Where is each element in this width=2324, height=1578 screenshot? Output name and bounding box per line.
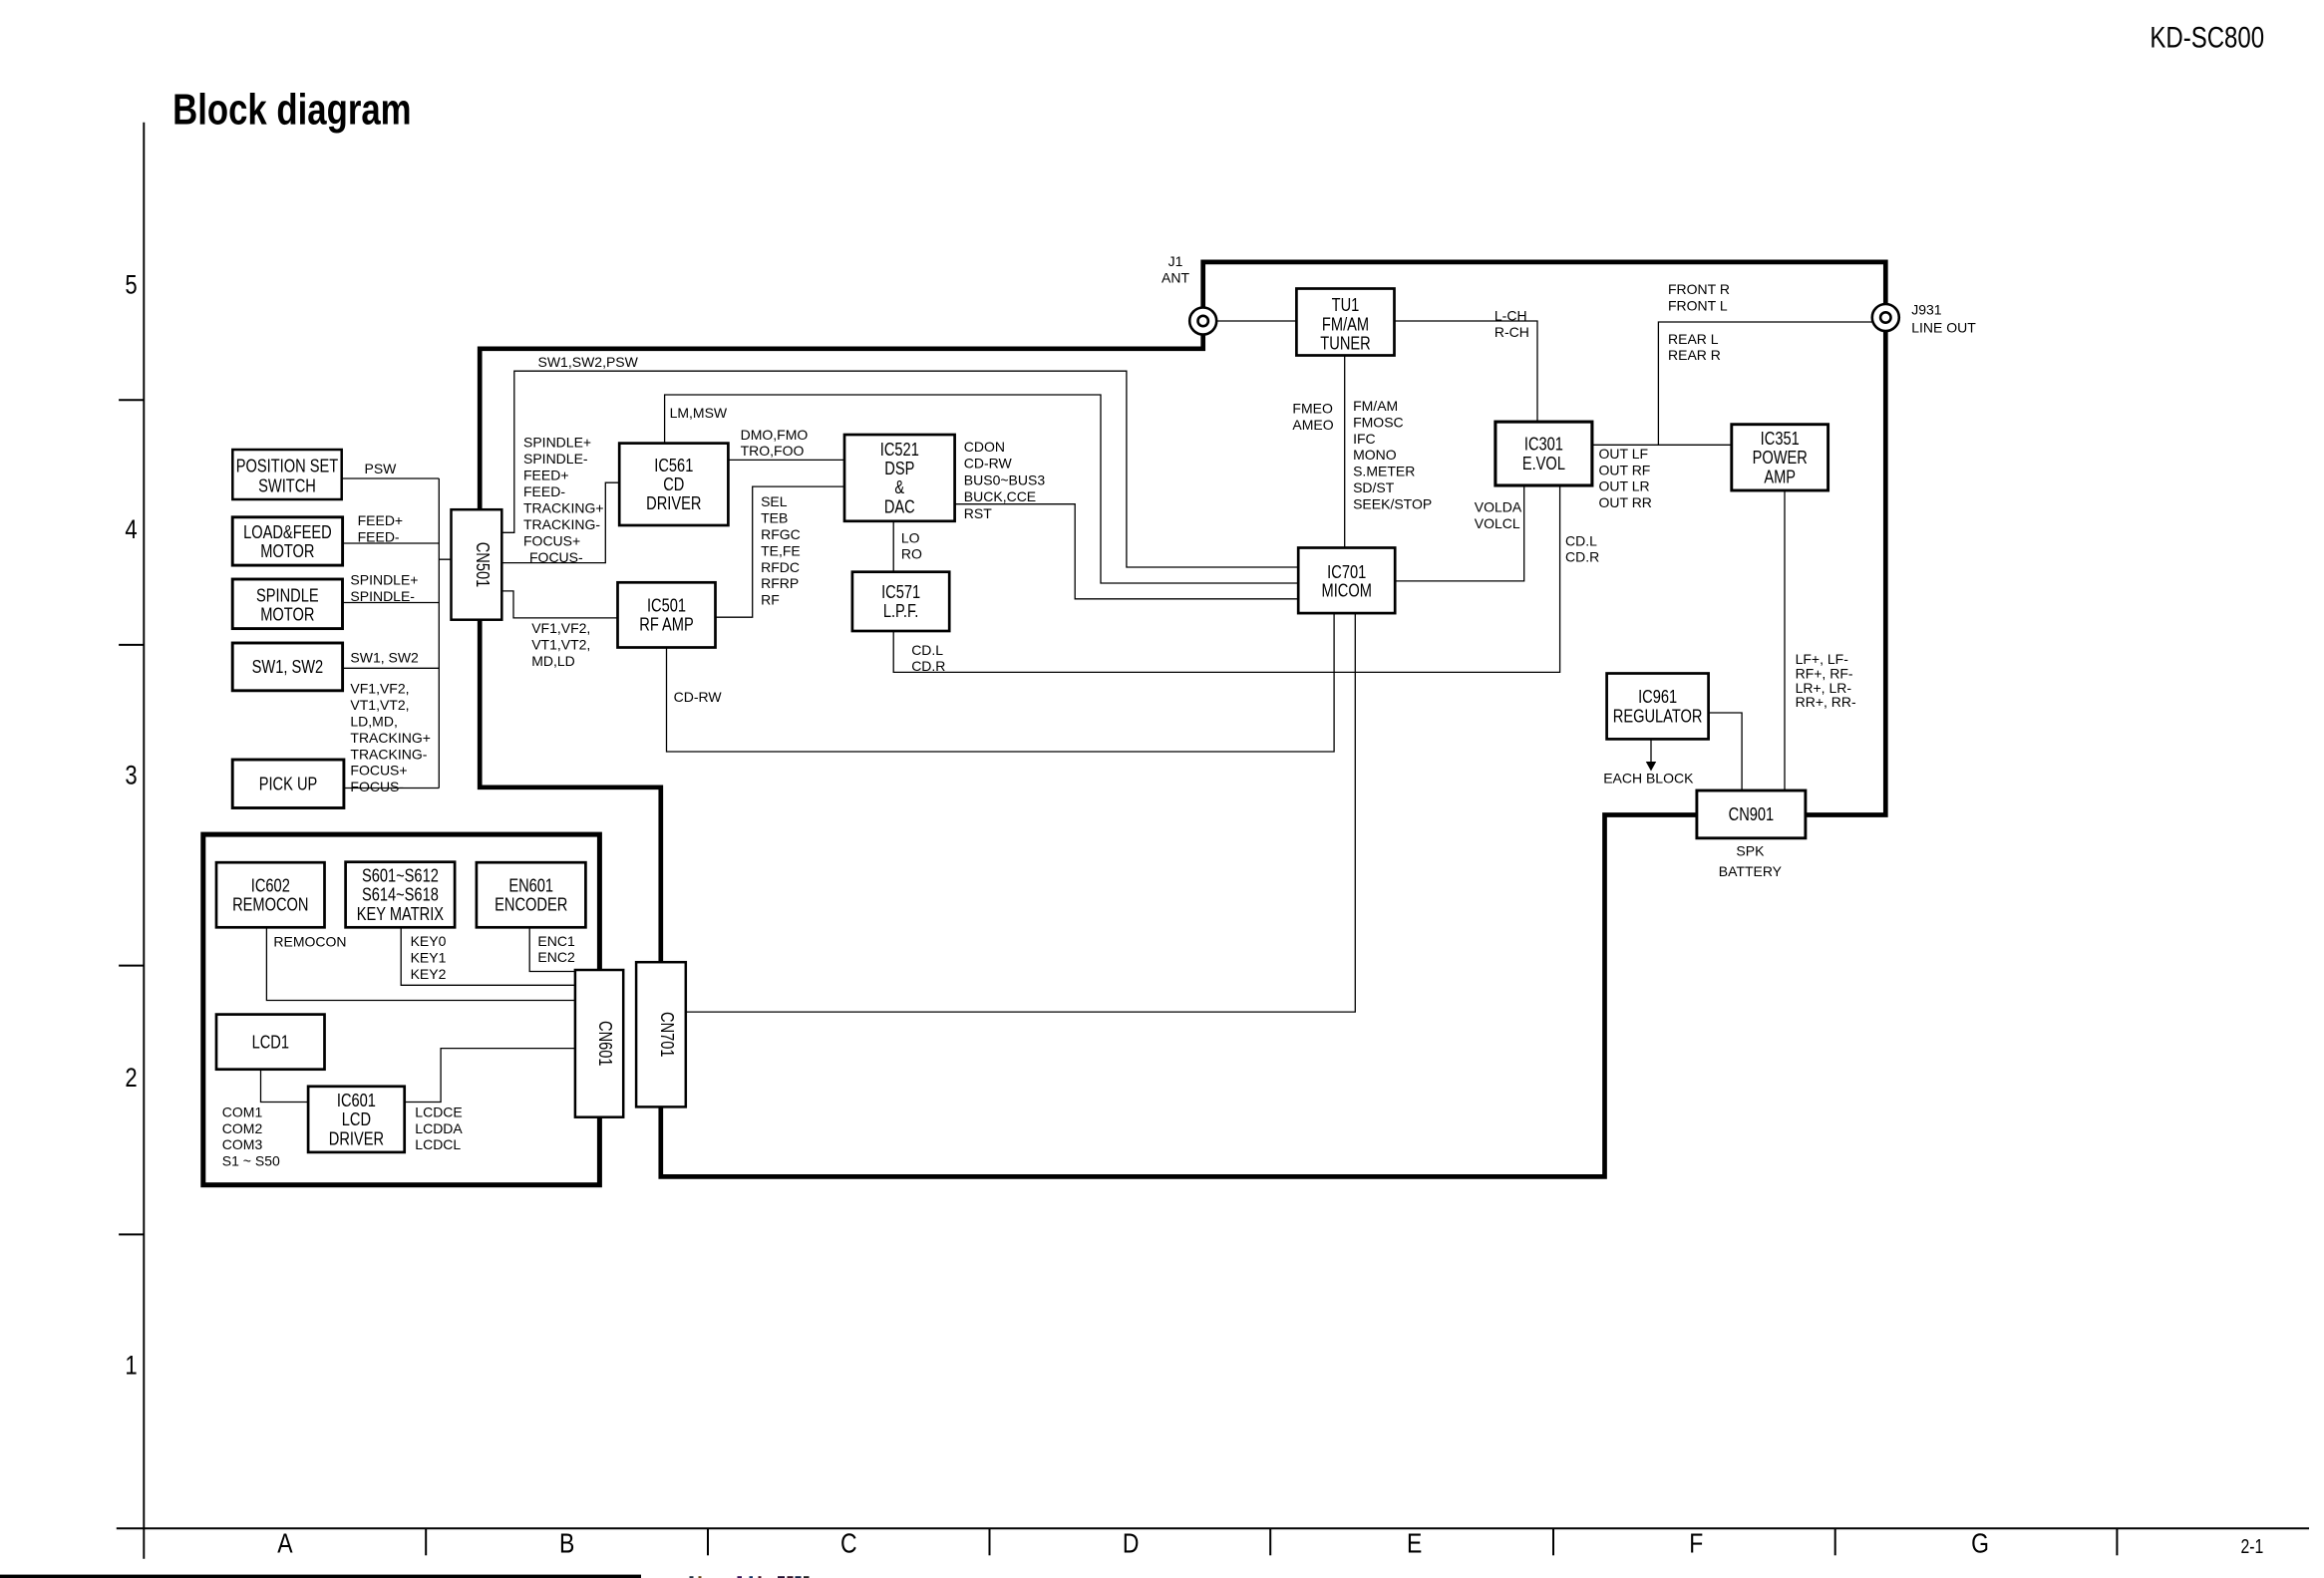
svg-text:RF AMP: RF AMP — [639, 614, 693, 635]
wire LM,MSW: IC561 to IC701 MICOM — [665, 395, 1299, 583]
ruler bottom tick 7 — [2116, 1528, 2118, 1555]
svg-text:FRONT R: FRONT R — [1668, 281, 1730, 297]
svg-text:&: & — [894, 477, 904, 498]
svg-text:LCDDA: LCDDA — [415, 1120, 463, 1136]
svg-text:Block diagram: Block diagram — [172, 86, 411, 135]
block IC961 REGULATOR — [1607, 674, 1709, 740]
svg-text:FMOSC: FMOSC — [1353, 414, 1404, 430]
wire KEY0-2: KEY MATRIX to CN601 — [401, 927, 575, 985]
svg-text:SW1, SW2: SW1, SW2 — [350, 650, 419, 666]
svg-text:MOTOR: MOTOR — [260, 540, 314, 561]
svg-text:FMEO: FMEO — [1292, 401, 1333, 417]
wire keyboard-board enclosure outline (thick) — [203, 834, 600, 1185]
svg-text:FM/AM: FM/AM — [1353, 398, 1398, 414]
svg-text:LM,MSW: LM,MSW — [670, 405, 728, 421]
page bottom edge bar — [0, 1575, 641, 1578]
svg-text:AMEO: AMEO — [1292, 417, 1333, 433]
svg-text:CN601: CN601 — [595, 1021, 616, 1067]
wire IC961 arrow to EACH BLOCK — [1650, 739, 1652, 763]
svg-text:REMOCON: REMOCON — [273, 933, 346, 949]
wire main-unit enclosure outline (thick) — [480, 262, 1885, 1177]
svg-text:REGULATOR: REGULATOR — [1613, 706, 1703, 727]
wire CDON..RST: IC521 to IC701 MICOM — [955, 504, 1299, 599]
block S601-S618 KEY MATRIX — [346, 862, 456, 928]
svg-text:REMOCON: REMOCON — [232, 894, 308, 915]
svg-text:ENCODER: ENCODER — [495, 894, 567, 915]
svg-text:L.P.F.: L.P.F. — [883, 601, 919, 622]
svg-text:FM/AM: FM/AM — [1322, 314, 1369, 335]
connector CN501 — [452, 509, 502, 620]
svg-text:TEB: TEB — [761, 510, 788, 526]
svg-text:TRO,FOO: TRO,FOO — [741, 443, 805, 459]
svg-text:S601~S612: S601~S612 — [362, 865, 439, 886]
wire OUT LF..RR: IC301 to IC351 POWER AMP — [1592, 444, 1732, 446]
block SPINDLE MOTOR — [232, 579, 342, 629]
block IC501 RF AMP — [618, 582, 716, 647]
svg-text:FRONT L: FRONT L — [1668, 297, 1728, 313]
block IC571 L.P.F. — [852, 572, 949, 631]
svg-text:CD-RW: CD-RW — [674, 689, 723, 705]
wire PSW: POSITION SET SWITCH to bus — [342, 477, 440, 479]
svg-text:IC521: IC521 — [880, 439, 919, 460]
svg-text:B: B — [559, 1528, 574, 1559]
svg-text:VOLCL: VOLCL — [1475, 515, 1520, 531]
wire CD-RW: IC501 to IC701 MICOM — [667, 613, 1335, 753]
ruler bottom tick 1 — [425, 1528, 427, 1555]
svg-text:LD,MD,: LD,MD, — [350, 713, 397, 729]
svg-text:BUCK,CCE: BUCK,CCE — [964, 488, 1036, 504]
svg-text:TRACKING-: TRACKING- — [350, 746, 427, 762]
svg-text:CDON: CDON — [964, 439, 1005, 455]
svg-text:SW1,SW2,PSW: SW1,SW2,PSW — [538, 354, 639, 370]
block PICK UP — [232, 760, 344, 808]
wire FRONT/REAR: to J931 LINE OUT — [1658, 322, 1871, 445]
svg-text:OUT RF: OUT RF — [1599, 462, 1651, 477]
svg-text:KEY1: KEY1 — [411, 949, 447, 965]
svg-text:SPINDLE-: SPINDLE- — [523, 451, 588, 467]
svg-text:CN901: CN901 — [1729, 804, 1775, 825]
svg-text:RR+, RR-: RR+, RR- — [1796, 694, 1856, 710]
svg-text:FEED+: FEED+ — [523, 468, 569, 483]
wire ENC1,ENC2: EN601 to CN601 — [529, 927, 575, 971]
svg-text:SPINDLE+: SPINDLE+ — [350, 572, 418, 588]
svg-text:COM2: COM2 — [222, 1120, 263, 1136]
svg-text:EN601: EN601 — [508, 875, 553, 896]
svg-text:PICK UP: PICK UP — [259, 774, 318, 794]
svg-text:RST: RST — [964, 505, 992, 521]
svg-text:KEY2: KEY2 — [411, 966, 447, 982]
svg-text:G: G — [1971, 1528, 1989, 1559]
svg-text:SD/ST: SD/ST — [1353, 479, 1395, 495]
svg-text:DSP: DSP — [884, 458, 914, 478]
wire SW1,SW2: SW1,SW2 to bus — [343, 667, 440, 669]
svg-text:CD.L: CD.L — [911, 642, 943, 658]
svg-text:LCDCE: LCDCE — [415, 1104, 462, 1119]
svg-text:RFRP: RFRP — [761, 575, 799, 591]
svg-text:TRACKING+: TRACKING+ — [523, 500, 604, 516]
svg-text:ENC2: ENC2 — [537, 949, 575, 965]
svg-text:KEY MATRIX: KEY MATRIX — [357, 903, 444, 924]
svg-text:KEY0: KEY0 — [411, 933, 447, 949]
block SW1, SW2 — [232, 643, 342, 691]
svg-text:IC961: IC961 — [1638, 687, 1677, 708]
svg-text:TRACKING+: TRACKING+ — [350, 730, 431, 746]
ruler bottom tick 3 — [989, 1528, 991, 1555]
svg-text:VOLDA: VOLDA — [1475, 499, 1522, 515]
svg-text:2-1: 2-1 — [2240, 1535, 2263, 1557]
svg-text:R-CH: R-CH — [1494, 324, 1529, 340]
svg-text:MICOM: MICOM — [1322, 580, 1372, 601]
svg-text:VF1,VF2,: VF1,VF2, — [350, 681, 409, 697]
wire SW1,SW2,PSW: CN501 to IC701 MICOM — [501, 371, 1298, 567]
block IC301 E.VOL — [1495, 422, 1592, 485]
svg-text:SW1, SW2: SW1, SW2 — [252, 657, 324, 678]
svg-text:DRIVER: DRIVER — [646, 493, 701, 514]
svg-text:SEL: SEL — [761, 493, 788, 509]
ruler bottom tick 6 — [1834, 1528, 1836, 1555]
svg-text:IC571: IC571 — [881, 581, 920, 602]
svg-text:FEED-: FEED- — [523, 483, 565, 499]
svg-text:IC602: IC602 — [251, 875, 290, 896]
svg-text:S1 ~ S50: S1 ~ S50 — [222, 1153, 280, 1169]
svg-text:RF: RF — [761, 592, 780, 608]
svg-text:COM1: COM1 — [222, 1104, 263, 1119]
svg-text:FEED+: FEED+ — [358, 512, 404, 528]
svg-text:RO: RO — [901, 546, 922, 562]
svg-text:C: C — [840, 1528, 857, 1559]
svg-text:F: F — [1689, 1528, 1703, 1559]
connector J1 ANT jack — [1189, 308, 1216, 335]
svg-text:LOAD&FEED: LOAD&FEED — [243, 521, 332, 542]
svg-text:E: E — [1407, 1528, 1422, 1559]
svg-text:ENC1: ENC1 — [537, 933, 575, 949]
ruler left border line — [143, 123, 145, 1559]
block LOAD&FEED MOTOR — [232, 517, 342, 565]
svg-text:PSW: PSW — [365, 461, 398, 476]
wire L-CH,R-CH: TU1 to IC301 E.VOL — [1395, 321, 1538, 422]
svg-text:ANT: ANT — [1162, 269, 1189, 285]
svg-text:CN501: CN501 — [472, 542, 493, 588]
ruler bottom tick 4 — [1269, 1528, 1271, 1555]
wire LCD1 to IC601 — [261, 1070, 309, 1103]
svg-text:SPINDLE+: SPINDLE+ — [523, 435, 591, 451]
svg-text:BATTERY: BATTERY — [1719, 863, 1783, 879]
svg-text:IC351: IC351 — [1761, 428, 1800, 449]
svg-text:VF1,VF2,: VF1,VF2, — [531, 620, 590, 636]
svg-text:TU1: TU1 — [1332, 295, 1360, 316]
svg-text:IC501: IC501 — [647, 595, 686, 616]
svg-text:CN701: CN701 — [657, 1012, 678, 1058]
block POSITION SET SWITCH — [232, 450, 341, 499]
svg-text:FOCUS+: FOCUS+ — [523, 532, 580, 548]
wire CN501 to IC501 RF AMP — [501, 591, 617, 618]
svg-text:DRIVER: DRIVER — [329, 1128, 384, 1149]
wire FEED+/FEED-: LOAD&FEED MOTOR to bus — [343, 542, 440, 544]
svg-text:EACH BLOCK: EACH BLOCK — [1603, 770, 1694, 786]
svg-text:KD-SC800: KD-SC800 — [2150, 20, 2264, 54]
svg-text:RFDC: RFDC — [761, 559, 800, 575]
svg-text:CD.R: CD.R — [911, 658, 945, 674]
block IC701 MICOM — [1298, 548, 1395, 614]
connector J931 LINE OUT jack — [1872, 304, 1899, 331]
wire TU1 to IC701 MICOM — [1344, 356, 1346, 548]
wire DMO,FMO,TRO,FOO: IC561 to IC521 — [728, 459, 844, 461]
svg-text:OUT LF: OUT LF — [1599, 446, 1649, 462]
block IC601 LCD DRIVER — [308, 1087, 405, 1152]
svg-text:LO: LO — [901, 530, 920, 546]
svg-text:SPINDLE: SPINDLE — [256, 585, 319, 606]
svg-text:AMP: AMP — [1764, 467, 1796, 487]
svg-text:S.METER: S.METER — [1353, 464, 1415, 479]
svg-text:OUT RR: OUT RR — [1599, 494, 1652, 510]
svg-text:POWER: POWER — [1753, 448, 1808, 469]
svg-text:J1: J1 — [1168, 253, 1183, 269]
svg-text:OUT LR: OUT LR — [1599, 478, 1650, 494]
ruler left tick 4 — [119, 1233, 144, 1235]
page bottom edge print remnants — [690, 1576, 810, 1578]
wire IC961 REGULATOR to CN901 — [1709, 713, 1743, 790]
svg-text:SPINDLE-: SPINDLE- — [350, 588, 415, 604]
wire SEL..RF: IC501 to IC521 — [716, 486, 845, 617]
svg-text:SEEK/STOP: SEEK/STOP — [1353, 495, 1432, 511]
wire VOLDA,VOLCL: IC701 MICOM to IC301 E.VOL — [1395, 485, 1524, 581]
svg-text:J931: J931 — [1911, 302, 1942, 318]
wire pick-up signals: PICK UP to bus — [344, 788, 439, 789]
svg-text:DMO,FMO: DMO,FMO — [741, 427, 809, 443]
connector CN901 — [1697, 790, 1806, 838]
block EN601 ENCODER — [477, 862, 586, 927]
svg-text:D: D — [1123, 1528, 1140, 1559]
svg-text:LCD1: LCD1 — [252, 1032, 289, 1053]
svg-text:FOCUS+: FOCUS+ — [350, 763, 407, 779]
svg-text:CD.R: CD.R — [1565, 549, 1599, 565]
svg-text:MONO: MONO — [1353, 447, 1397, 463]
svg-text:VT1,VT2,: VT1,VT2, — [531, 636, 590, 652]
block IC561 CD DRIVER — [619, 444, 728, 525]
ruler bottom border line — [117, 1527, 2309, 1529]
svg-text:4: 4 — [125, 515, 137, 545]
block TU1 FM/AM TUNER — [1296, 289, 1394, 356]
svg-text:LCD: LCD — [342, 1109, 371, 1130]
wire J1 to TU1 — [1217, 320, 1296, 322]
svg-text:SWITCH: SWITCH — [258, 475, 316, 496]
block IC602 REMOCON — [216, 862, 325, 927]
connector CN601 — [575, 970, 623, 1117]
svg-text:IC561: IC561 — [654, 455, 693, 475]
block LCD1 — [216, 1015, 325, 1070]
svg-text:TUNER: TUNER — [1320, 333, 1370, 354]
svg-text:5: 5 — [125, 270, 137, 300]
wire REMOCON: IC602 to CN601 — [266, 927, 575, 1000]
svg-text:SPK: SPK — [1736, 843, 1765, 859]
ruler left tick 3 — [119, 965, 144, 967]
wire LF+..RR-: IC351 to CN901 — [1784, 490, 1786, 790]
ruler left tick 1 — [119, 399, 144, 401]
svg-text:2: 2 — [125, 1064, 137, 1094]
ruler left tick 2 — [119, 644, 144, 646]
svg-text:FOCUS-: FOCUS- — [350, 779, 404, 794]
svg-text:MOTOR: MOTOR — [260, 604, 314, 625]
ruler bottom tick 5 — [1552, 1528, 1554, 1555]
block IC521 DSP & DAC — [844, 435, 955, 521]
svg-text:CD.L: CD.L — [1565, 532, 1597, 548]
svg-text:FOCUS-: FOCUS- — [529, 549, 583, 565]
svg-text:RFGC: RFGC — [761, 526, 801, 542]
svg-text:TE,FE: TE,FE — [761, 542, 801, 558]
svg-text:VT1,VT2,: VT1,VT2, — [350, 697, 409, 713]
wire SPINDLE+/-: SPINDLE MOTOR to bus — [343, 602, 440, 604]
svg-text:REAR R: REAR R — [1668, 347, 1721, 363]
svg-text:LINE OUT: LINE OUT — [1911, 319, 1976, 335]
svg-text:A: A — [277, 1528, 293, 1559]
svg-text:LCDCL: LCDCL — [415, 1136, 461, 1152]
block IC351 POWER AMP — [1732, 425, 1828, 490]
svg-text:E.VOL: E.VOL — [1522, 453, 1565, 473]
svg-text:CD: CD — [663, 473, 684, 494]
svg-text:COM3: COM3 — [222, 1136, 263, 1152]
svg-text:POSITION SET: POSITION SET — [236, 456, 338, 476]
wire IC701 MICOM to CN701 — [686, 613, 1356, 1012]
svg-text:L-CH: L-CH — [1494, 308, 1527, 324]
wire bus vertical to CN501 — [439, 478, 451, 789]
connector CN701 — [636, 962, 686, 1106]
svg-text:DAC: DAC — [884, 496, 915, 517]
svg-text:S614~S618: S614~S618 — [362, 884, 439, 905]
svg-text:FEED-: FEED- — [358, 528, 400, 544]
svg-text:3: 3 — [125, 762, 137, 791]
wire LO,RO: IC521 to IC571 — [892, 521, 894, 572]
svg-text:BUS0~BUS3: BUS0~BUS3 — [964, 472, 1046, 487]
svg-text:REAR L: REAR L — [1668, 331, 1719, 347]
svg-text:CD-RW: CD-RW — [964, 456, 1013, 472]
wire CN501 to IC561 CD DRIVER — [501, 482, 619, 562]
svg-text:TRACKING-: TRACKING- — [523, 516, 600, 532]
wire CD.L,CD.R: IC571 to IC301 E.VOL — [893, 485, 1559, 672]
svg-text:MD,LD: MD,LD — [531, 653, 575, 669]
svg-text:IFC: IFC — [1353, 431, 1376, 447]
ruler bottom tick 2 — [707, 1528, 709, 1555]
svg-text:IC601: IC601 — [337, 1090, 376, 1110]
svg-text:1: 1 — [125, 1352, 137, 1382]
svg-text:IC301: IC301 — [1524, 434, 1563, 455]
wire LCDCE..: IC601 to CN601 — [405, 1049, 575, 1103]
